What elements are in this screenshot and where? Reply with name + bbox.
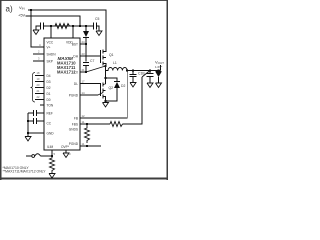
brace D0-D4 group xyxy=(31,73,36,103)
svg-text:DH: DH xyxy=(73,55,78,59)
node VBATT junction xyxy=(30,9,32,11)
wire BST vertical xyxy=(85,44,87,62)
svg-text:PGND: PGND xyxy=(69,94,79,98)
capacitor C4 (CC) xyxy=(28,120,33,122)
wire VBATT top rail xyxy=(28,10,106,48)
svg-text:Q1: Q1 xyxy=(109,53,114,57)
diode D1 (BST bootstrap) xyxy=(85,26,87,31)
node Q2 source junction xyxy=(104,100,106,102)
resistor R3 xyxy=(110,122,123,127)
svg-text:GND: GND xyxy=(47,132,55,136)
capacitor C2 (VDD bypass) xyxy=(93,23,95,30)
node resistor tap xyxy=(86,123,88,125)
svg-text:**MAX1711/MAX1712 ONLY: **MAX1711/MAX1712 ONLY xyxy=(3,170,47,174)
svg-text:12: 12 xyxy=(82,114,86,118)
svg-text:C7: C7 xyxy=(90,59,94,63)
svg-text:PGND: PGND xyxy=(69,142,79,146)
pin PGND wire to Q2 source xyxy=(80,94,98,96)
svg-text:+5V: +5V xyxy=(18,13,26,18)
wire output node xyxy=(127,70,160,72)
pin GNDS wire xyxy=(80,145,101,147)
pin LX wire xyxy=(80,71,86,73)
pin DL wire xyxy=(80,83,101,85)
svg-text:SKP: SKP xyxy=(47,60,53,64)
svg-text:L1: L1 xyxy=(113,61,117,65)
svg-text:24: 24 xyxy=(82,40,86,44)
resistor R4 (vertical) xyxy=(85,124,90,143)
svg-text:11: 11 xyxy=(82,120,85,124)
pin FB sense wire xyxy=(80,71,127,119)
svg-text:C5: C5 xyxy=(95,17,99,21)
svg-text:11: 11 xyxy=(82,142,85,146)
wire VCC pin drop xyxy=(50,26,52,38)
node +5V junction xyxy=(79,25,81,27)
svg-text:D4: D4 xyxy=(47,74,51,78)
resistor R1 (VCC filter 20ohm) xyxy=(55,24,70,29)
svg-text:a): a) xyxy=(6,5,13,14)
pin D0 stub xyxy=(35,99,44,101)
svg-text:GNDS: GNDS xyxy=(69,128,78,132)
figure border frame xyxy=(0,0,168,1)
svg-text:1.6V*: 1.6V* xyxy=(155,65,163,69)
svg-text:FBS: FBS xyxy=(72,123,78,127)
pin DH wire xyxy=(80,55,101,57)
node BST diode junction xyxy=(85,25,87,27)
wire V+ feed from VBATT rail to pin V+ xyxy=(31,10,44,47)
svg-text:D1: D1 xyxy=(47,92,51,96)
inductor L1 xyxy=(106,68,128,71)
switch S1 (skip select) xyxy=(26,155,32,157)
pin SKP stub xyxy=(33,60,44,62)
pin TON stub xyxy=(40,104,44,106)
ground G1 for capacitor C1 xyxy=(36,26,41,30)
svg-text:D2: D2 xyxy=(121,84,125,88)
diode D2 (schottky) xyxy=(114,81,120,83)
svg-text:D2: D2 xyxy=(47,86,51,90)
node LX lower junction xyxy=(104,77,106,79)
svg-text:D0: D0 xyxy=(47,98,51,102)
svg-text:Q2: Q2 xyxy=(109,86,114,90)
pin D3 stub xyxy=(35,81,44,83)
transistor Q1 (high side NMOS) xyxy=(100,50,102,63)
capacitor C8 (output) xyxy=(132,71,134,75)
pin D2 stub xyxy=(35,87,44,89)
IC U1 MAX1710 box xyxy=(44,38,80,150)
wire VCC/VDD node line xyxy=(44,25,94,27)
wire LX diagonal to switch node xyxy=(86,66,106,72)
svg-text:VCC: VCC xyxy=(47,41,54,45)
ground G4 xyxy=(63,153,69,158)
wire left ground bus xyxy=(27,113,29,136)
svg-text:23: 23 xyxy=(82,52,86,56)
svg-text:21: 21 xyxy=(82,68,86,72)
svg-text:REF: REF xyxy=(47,112,53,116)
svg-text:TON: TON xyxy=(47,104,54,108)
wire BST pin to bootstrap node xyxy=(80,43,86,45)
pin D1 stub xyxy=(35,93,44,95)
pin FBS sense wire with resistor R3 xyxy=(80,123,110,125)
ground G7 xyxy=(147,83,153,88)
svg-text:D3: D3 xyxy=(47,80,51,84)
node VCC junction xyxy=(50,25,52,27)
wire VOUT stub xyxy=(160,65,162,71)
svg-text:DL: DL xyxy=(74,82,78,86)
capacitor C9 (output) xyxy=(149,71,151,74)
svg-text:CC: CC xyxy=(47,122,52,126)
transistor Q2 (synchronous rectifier NMOS) xyxy=(100,83,102,96)
svg-text:V+: V+ xyxy=(47,46,51,50)
capacitor C7 (boot) xyxy=(83,62,89,64)
node LX top junction xyxy=(104,65,106,67)
svg-text:C1B: C1B xyxy=(138,72,145,76)
ground G9 xyxy=(49,174,55,179)
svg-text:SHDN: SHDN xyxy=(47,53,57,57)
ground G8 xyxy=(156,83,162,88)
ground G6 xyxy=(130,83,136,88)
capacitor C1 (VCC bypass) xyxy=(40,23,42,30)
pin ILIM drop xyxy=(51,150,53,156)
capacitor C3 (REF) xyxy=(28,112,34,114)
wire to schottky D2 xyxy=(106,78,118,81)
svg-text:VIN: VIN xyxy=(19,5,25,11)
pin D4 stub xyxy=(35,75,44,77)
node VDD junction xyxy=(72,25,74,27)
svg-text:FB: FB xyxy=(74,117,78,121)
svg-text:17: 17 xyxy=(82,80,86,84)
diode D3 (output clamp) xyxy=(158,70,160,73)
wire VDD pin drop xyxy=(72,26,74,38)
ground G3 xyxy=(25,137,31,142)
ground G2 xyxy=(96,26,99,31)
svg-text:10: 10 xyxy=(68,152,72,156)
svg-text:BST: BST xyxy=(72,43,78,47)
node output junctions xyxy=(126,69,128,71)
svg-text:ILIM: ILIM xyxy=(47,145,54,149)
wire LX vertical xyxy=(105,66,107,84)
svg-text:14: 14 xyxy=(82,91,86,95)
wire GND pin xyxy=(28,132,44,134)
ground G5 xyxy=(105,101,107,103)
wire +5V input line xyxy=(26,16,81,26)
pin OVP ground drop xyxy=(65,150,67,153)
pin SHDN stub xyxy=(33,53,44,55)
resistor R2 (ILIM) xyxy=(50,156,55,173)
